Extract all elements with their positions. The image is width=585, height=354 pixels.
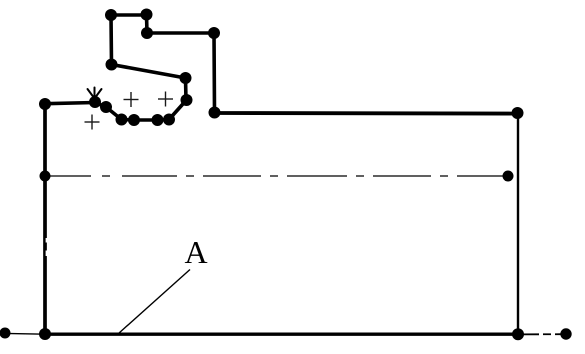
node dot (45,334) <box>39 328 51 340</box>
bottom-left stub wire <box>5 332 45 335</box>
node dot (111,15) <box>105 9 117 21</box>
node dot (169,119.5) <box>163 114 175 126</box>
point marker plus 1 <box>124 92 139 107</box>
node dot (121.5,119.5) <box>116 114 128 126</box>
wire upper step contour <box>45 15 215 120</box>
node dot (185.5,78) <box>180 72 192 84</box>
white notch on left line <box>46 238 48 243</box>
node dot (146,15) <box>141 9 153 21</box>
point marker plus 2 <box>158 92 173 107</box>
node dot (215,112) <box>209 107 221 119</box>
node dot (112,64.5) <box>106 59 118 71</box>
leader line for label A <box>119 270 191 334</box>
bottom-right dashed stub wire <box>518 333 562 335</box>
point marker plus 3 <box>85 115 100 130</box>
node dot (214,33) <box>208 27 220 39</box>
wire right vertical side <box>517 113 519 334</box>
wire main top horizontal <box>214 111 518 115</box>
node dot (5,333) <box>0 328 11 339</box>
node dot (106,107) <box>100 101 112 113</box>
wire left vertical side <box>43 102 47 334</box>
point marker asterisk <box>88 88 102 101</box>
node dot (508,176) <box>503 171 514 182</box>
svg-text:A: A <box>184 234 207 270</box>
node dot (45,104) <box>39 98 51 110</box>
node dot (95,102) <box>89 96 101 108</box>
centerline dash-dot <box>45 175 508 177</box>
wire bottom horizontal <box>44 333 518 336</box>
node dot (45,176) <box>40 171 51 182</box>
node dot (158,120) <box>152 114 164 126</box>
node dot (186,100.5) <box>181 94 193 106</box>
node dot (134,120) <box>128 114 140 126</box>
node dot (147,33) <box>141 27 153 39</box>
white notch on left line lower <box>46 251 48 257</box>
node dot (518,113) <box>512 107 524 119</box>
node dot (566,334) <box>560 328 571 339</box>
node dot (518,334) <box>512 328 524 340</box>
